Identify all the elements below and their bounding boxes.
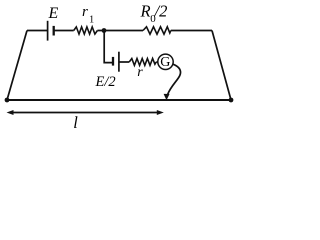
resistor r bbox=[129, 59, 156, 66]
wire left slant bbox=[7, 31, 27, 101]
dimension arrow l bbox=[7, 110, 164, 115]
svg-text:/2: /2 bbox=[154, 2, 168, 21]
svg-text:r: r bbox=[82, 4, 88, 20]
svg-text:l: l bbox=[73, 113, 78, 132]
node terminal dot left bbox=[5, 98, 10, 103]
wire R0/2 to top-right corner bbox=[171, 30, 212, 32]
svg-text:G: G bbox=[160, 55, 170, 70]
wire r to galvanometer bbox=[156, 61, 158, 63]
wire bottom (slide wire) bbox=[7, 99, 231, 101]
wire right slant bbox=[212, 31, 231, 101]
wire top-left segment bbox=[27, 30, 48, 32]
jockey lead curve with arrowhead bbox=[164, 64, 181, 100]
node junction dot bbox=[102, 28, 107, 33]
wire battery E/2 to r bbox=[119, 61, 129, 63]
svg-text:R: R bbox=[140, 2, 151, 21]
node terminal dot right bbox=[229, 98, 234, 103]
wire branch vertical from junction bbox=[104, 31, 113, 63]
battery E/2 bbox=[113, 52, 119, 72]
resistor r1 bbox=[74, 27, 98, 34]
resistor R0/2 bbox=[143, 27, 171, 34]
svg-text:r: r bbox=[137, 65, 143, 80]
wire battery E to r1 bbox=[54, 30, 74, 32]
svg-text:E/2: E/2 bbox=[95, 74, 116, 90]
battery E bbox=[48, 21, 54, 41]
wire r1 to R0/2 bbox=[97, 30, 143, 32]
svg-text:E: E bbox=[48, 5, 59, 22]
svg-text:1: 1 bbox=[89, 15, 94, 26]
galvanometer G bbox=[158, 54, 173, 70]
